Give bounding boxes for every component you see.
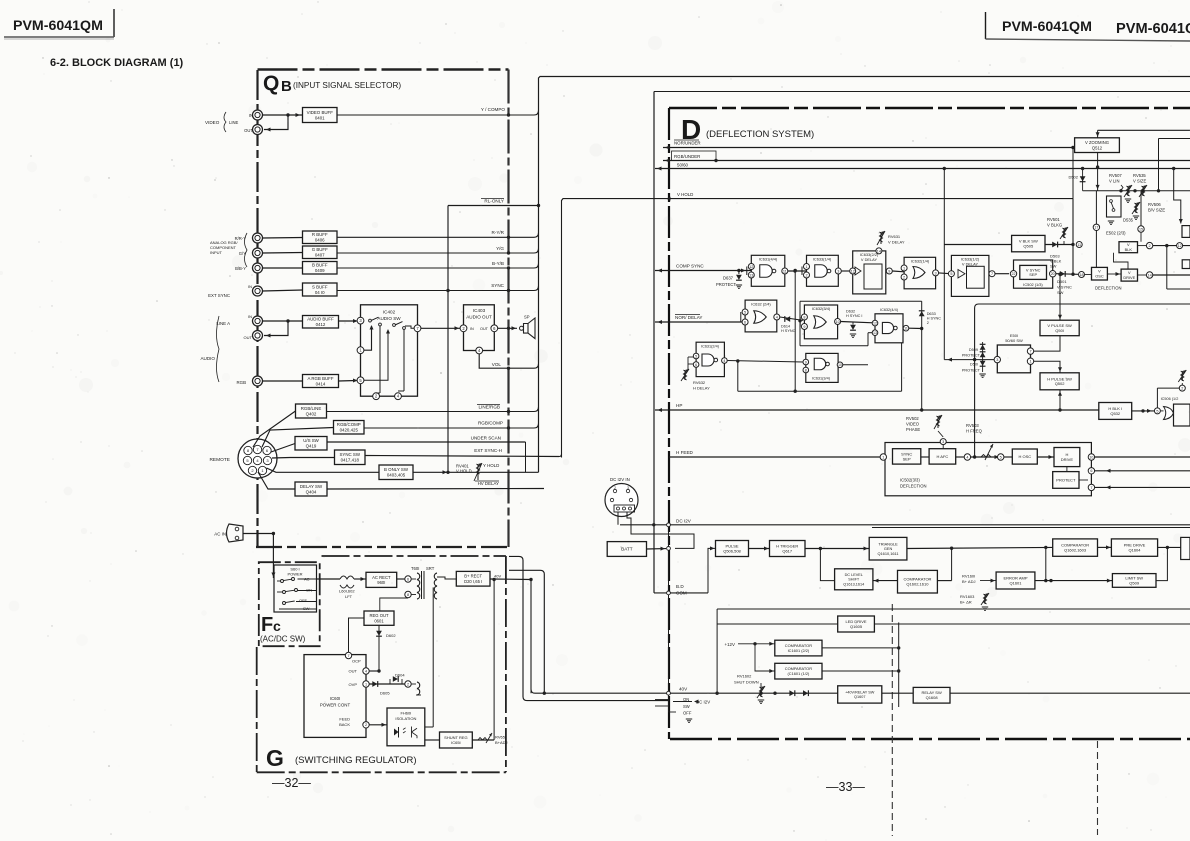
svg-text:SEP: SEP (1029, 272, 1037, 277)
svg-text:B-Y/B: B-Y/B (492, 261, 504, 266)
svg-text:RV631: RV631 (888, 234, 901, 239)
svg-text:OUT: OUT (349, 669, 358, 674)
svg-text:LINE/RGB: LINE/RGB (479, 405, 500, 410)
svg-text:c: c (273, 618, 281, 634)
svg-text:50/60: 50/60 (677, 163, 689, 168)
svg-text:D632: D632 (846, 310, 855, 314)
svg-text:H AFC: H AFC (937, 454, 949, 459)
svg-text:(AC/DC SW): (AC/DC SW) (260, 635, 306, 644)
svg-text:D20 I,65 I: D20 I,65 I (464, 579, 482, 584)
svg-text:17: 17 (1094, 226, 1098, 230)
svg-text:B: B (281, 78, 292, 95)
svg-text:H FEED: H FEED (676, 450, 694, 455)
svg-text:PVM-6041QM: PVM-6041QM (1002, 19, 1092, 35)
svg-text:D535: D535 (1123, 218, 1134, 223)
svg-text:+12V: +12V (725, 642, 735, 647)
svg-text:IC631(2/4): IC631(2/4) (701, 344, 720, 348)
svg-text:0403,405: 0403,405 (387, 473, 406, 478)
svg-text:RV507: RV507 (1109, 173, 1122, 178)
svg-text:SW: SW (303, 606, 310, 611)
svg-text:SRT: SRT (426, 566, 435, 571)
svg-text:RV632: RV632 (693, 380, 706, 385)
svg-text:Y / COMPO: Y / COMPO (481, 107, 506, 112)
svg-text:B/V SIZE: B/V SIZE (1148, 208, 1165, 213)
svg-text:H SYNC: H SYNC (927, 317, 942, 321)
svg-text:DRIVE: DRIVE (1123, 275, 1135, 280)
svg-text:0412: 0412 (316, 322, 326, 327)
svg-text:3: 3 (627, 486, 629, 490)
svg-text:40V: 40V (679, 687, 688, 692)
svg-text:Q1605: Q1605 (850, 624, 863, 629)
svg-text:2: 2 (365, 723, 367, 727)
svg-text:2: 2 (407, 682, 409, 686)
svg-text:3: 3 (996, 358, 998, 362)
svg-text:IN: IN (248, 314, 252, 319)
svg-text:RV535: RV535 (1133, 173, 1146, 178)
svg-text:RV1603: RV1603 (960, 594, 975, 599)
svg-text:Y HOLD: Y HOLD (483, 463, 499, 468)
svg-text:RGB/COMP: RGB/COMP (337, 422, 361, 427)
svg-text:10: 10 (838, 363, 842, 367)
svg-text:Q505: Q505 (1023, 244, 1034, 249)
svg-text:IC632(3/4): IC632(3/4) (812, 306, 831, 311)
svg-text:0401: 0401 (315, 115, 325, 120)
svg-text:A RGB BUFF: A RGB BUFF (307, 376, 333, 381)
svg-text:UNDER SCAN: UNDER SCAN (471, 436, 501, 441)
svg-text:12: 12 (749, 265, 753, 269)
svg-text:D605: D605 (380, 691, 390, 696)
svg-text:RV1602: RV1602 (737, 674, 752, 679)
svg-text:G: G (266, 745, 284, 771)
svg-text:PROTECT: PROTECT (962, 369, 981, 373)
svg-text:Q1602,1610: Q1602,1610 (906, 582, 929, 587)
svg-text:IN: IN (470, 327, 474, 331)
svg-text:7: 7 (1029, 349, 1031, 353)
svg-text:2: 2 (903, 275, 905, 279)
svg-text:SW: SW (1050, 264, 1057, 269)
svg-text:OVP: OVP (349, 682, 358, 687)
svg-text:DEFLECTION: DEFLECTION (900, 484, 927, 489)
svg-text:HV DELAY: HV DELAY (478, 481, 499, 486)
svg-text:960I: 960I (377, 580, 385, 585)
svg-text:OFF: OFF (683, 711, 692, 716)
svg-text:Y/G: Y/G (496, 246, 504, 251)
svg-text:L60I,602: L60I,602 (339, 589, 355, 594)
svg-text:2: 2 (1181, 386, 1183, 390)
svg-text:2: 2 (1149, 244, 1151, 248)
svg-text:H FREQ: H FREQ (966, 429, 983, 434)
svg-text:9: 9 (888, 269, 890, 273)
svg-text:DC LEVEL: DC LEVEL (845, 573, 863, 577)
svg-text:3: 3 (942, 440, 944, 444)
svg-text:F: F (261, 614, 273, 636)
svg-text:IC60I: IC60I (330, 696, 341, 701)
svg-text:0414: 0414 (316, 381, 326, 386)
svg-text:LINE A: LINE A (216, 321, 230, 326)
svg-text:AC IN: AC IN (214, 532, 226, 537)
svg-text:VIDEO BUFF: VIDEO BUFF (307, 110, 334, 115)
svg-text:BLK: BLK (1125, 247, 1133, 252)
svg-text:OSC: OSC (1095, 274, 1104, 279)
svg-text:1: 1 (805, 265, 807, 269)
svg-text:3: 3 (935, 271, 937, 275)
svg-text:U/S SW: U/S SW (303, 438, 319, 443)
svg-text:SW: SW (683, 704, 690, 709)
svg-text:14: 14 (1147, 273, 1151, 277)
svg-text:0407: 0407 (315, 253, 325, 258)
svg-text:4: 4 (966, 455, 968, 459)
svg-text:COMP SYNC: COMP SYNC (676, 264, 704, 269)
svg-text:6-2. BLOCK DIAGRAM (1): 6-2. BLOCK DIAGRAM (1) (50, 57, 184, 69)
svg-text:AUDIO BUFF: AUDIO BUFF (307, 317, 334, 322)
svg-text:Q1607: Q1607 (854, 695, 865, 699)
svg-text:04 I0: 04 I0 (315, 290, 325, 295)
svg-text:INPUT: INPUT (210, 250, 223, 255)
svg-text:V LIN: V LIN (1109, 179, 1119, 184)
svg-text:5: 5 (744, 310, 746, 314)
svg-text:AUDIO: AUDIO (200, 356, 215, 361)
svg-text:6: 6 (407, 577, 409, 581)
svg-text:(DEFLECTION SYSTEM): (DEFLECTION SYSTEM) (706, 129, 814, 140)
svg-text:IC402: IC402 (383, 310, 396, 315)
svg-text:7: 7 (991, 272, 993, 276)
svg-text:NOR/UNDER: NOR/UNDER (674, 141, 701, 146)
svg-text:RGB/COMP: RGB/COMP (478, 421, 503, 426)
svg-text:7: 7 (347, 654, 349, 658)
svg-text:6: 6 (1090, 469, 1092, 473)
svg-text:POWER: POWER (287, 572, 302, 577)
svg-text:—33—: —33— (826, 780, 865, 794)
svg-text:8: 8 (803, 315, 805, 319)
svg-text:Q50I: Q50I (1055, 328, 1064, 333)
svg-text:IN: IN (248, 284, 252, 289)
svg-text:14: 14 (877, 249, 881, 253)
svg-text:Q1610,1611: Q1610,1611 (877, 551, 898, 556)
svg-text:RV501: RV501 (1047, 217, 1060, 222)
svg-text:(SWITCHING REGULATOR): (SWITCHING REGULATOR) (295, 755, 417, 766)
svg-text:2: 2 (805, 273, 807, 277)
svg-text:RGB/UNDER: RGB/UNDER (674, 154, 700, 159)
svg-text:Q1602,1603: Q1602,1603 (1064, 548, 1087, 553)
svg-text:D614: D614 (781, 325, 790, 329)
svg-text:11: 11 (1077, 243, 1081, 247)
svg-text:V DELAY: V DELAY (888, 240, 905, 245)
svg-text:40V: 40V (494, 574, 501, 579)
svg-text:1: 1 (1029, 360, 1031, 364)
svg-text:R-Y/R: R-Y/R (491, 230, 504, 235)
svg-text:PROTECT: PROTECT (962, 353, 981, 357)
svg-text:(C1601 (1/2): (C1601 (1/2) (787, 671, 810, 676)
svg-text:+40V/RELAY SW: +40V/RELAY SW (845, 690, 875, 694)
svg-text:5: 5 (1156, 409, 1158, 413)
svg-text:VIDEO: VIDEO (205, 120, 220, 125)
svg-text:E502 (2/3): E502 (2/3) (1106, 231, 1126, 236)
svg-text:IC502(3/3): IC502(3/3) (900, 478, 920, 483)
svg-text:AUDIO SW: AUDIO SW (377, 316, 401, 321)
svg-text:B BUFF: B BUFF (312, 263, 328, 268)
svg-text:IC1601 (2/2): IC1601 (2/2) (788, 648, 810, 653)
svg-text:1: 1 (903, 266, 905, 270)
svg-text:OUT: OUT (244, 128, 253, 133)
svg-text:OUT: OUT (244, 335, 253, 340)
svg-text:3: 3 (837, 269, 839, 273)
svg-text:50/60 SW: 50/60 SW (1005, 338, 1023, 343)
svg-text:H OSC: H OSC (1018, 454, 1031, 459)
svg-text:REMOTE: REMOTE (209, 457, 230, 463)
svg-text:Q1613,1614: Q1613,1614 (843, 582, 864, 586)
svg-text:ON: ON (306, 588, 312, 593)
svg-text:Q509: Q509 (1129, 580, 1140, 585)
svg-text:DRIVE: DRIVE (1061, 457, 1074, 462)
svg-text:1: 1 (882, 455, 884, 459)
svg-text:(INPUT SIGNAL SELECTOR): (INPUT SIGNAL SELECTOR) (293, 81, 401, 90)
svg-text:HP: HP (676, 403, 682, 408)
svg-text:RV502: RV502 (906, 416, 919, 421)
svg-text:OUT: OUT (480, 327, 489, 331)
svg-text:FEED: FEED (339, 717, 350, 722)
svg-text:Q1601: Q1601 (1009, 580, 1022, 585)
svg-text:B.D: B.D (676, 584, 684, 589)
svg-text:IC631(3/4): IC631(3/4) (812, 377, 831, 381)
svg-text:SYNC: SYNC (491, 283, 504, 288)
svg-text:ISOLATION: ISOLATION (395, 716, 416, 721)
svg-text:IC403: IC403 (473, 308, 486, 313)
svg-text:11: 11 (783, 269, 787, 273)
svg-text:B ONLY SW: B ONLY SW (384, 467, 409, 472)
svg-text:1: 1 (365, 682, 367, 686)
svg-text:Q532: Q532 (1110, 411, 1121, 416)
svg-text:S BUFF: S BUFF (312, 284, 328, 289)
svg-text:0409: 0409 (315, 268, 325, 273)
svg-text:10: 10 (1089, 455, 1093, 459)
svg-text:SP: SP (524, 315, 530, 320)
svg-text:PROTECT: PROTECT (1056, 477, 1076, 482)
svg-text:LFT: LFT (345, 594, 353, 599)
svg-text:DC I2V: DC I2V (676, 519, 692, 524)
svg-text:Q506,508: Q506,508 (723, 548, 741, 553)
svg-text:13: 13 (749, 273, 753, 277)
svg-text:VOL: VOL (492, 362, 502, 367)
svg-text:2: 2 (614, 486, 616, 490)
svg-text:9: 9 (805, 360, 807, 364)
svg-text:4: 4 (365, 669, 367, 673)
svg-text:D5I0: D5I0 (970, 363, 978, 367)
svg-text:12: 12 (851, 269, 855, 273)
svg-text:V DELAY: V DELAY (861, 257, 878, 262)
svg-text:IC502 (1/3): IC502 (1/3) (1023, 282, 1043, 287)
svg-text:0601: 0601 (374, 618, 384, 623)
svg-text:OFF: OFF (299, 598, 308, 603)
svg-text:D602: D602 (386, 633, 396, 638)
svg-text:H SYNC I: H SYNC I (846, 314, 862, 318)
svg-text:V BLKG: V BLKG (1047, 223, 1062, 228)
svg-text:RL-ONLY: RL-ONLY (484, 199, 504, 204)
svg-text:0420,425: 0420,425 (340, 428, 359, 433)
svg-text:Q512: Q512 (1092, 145, 1103, 150)
svg-text:DC I2V IN: DC I2V IN (610, 477, 630, 482)
svg-text:0417,418: 0417,418 (341, 458, 360, 463)
svg-text:OCP: OCP (352, 659, 361, 664)
svg-text:8: 8 (407, 593, 409, 597)
svg-text:D509: D509 (969, 348, 978, 352)
svg-text:D501: D501 (1057, 279, 1067, 284)
svg-text:22: 22 (1012, 272, 1016, 276)
svg-text:13: 13 (873, 331, 877, 335)
svg-text:H SYNC: H SYNC (781, 329, 796, 333)
svg-text:6: 6 (744, 320, 746, 324)
svg-text:R BUFF: R BUFF (312, 232, 328, 237)
svg-text:Q1608: Q1608 (926, 695, 939, 700)
svg-text:Q502: Q502 (1055, 381, 1066, 386)
svg-text:DELAY SW: DELAY SW (300, 484, 323, 489)
svg-text:IC633(1/4): IC633(1/4) (813, 257, 832, 262)
svg-text:5: 5 (950, 272, 952, 276)
svg-text:15: 15 (1139, 227, 1143, 231)
svg-text:18: 18 (1079, 273, 1083, 277)
svg-text:B+ ΔR: B+ ΔR (960, 600, 972, 605)
svg-text:Q419: Q419 (306, 444, 317, 449)
svg-text:RGB/LINE: RGB/LINE (301, 406, 322, 411)
svg-text:IC506 (1/2: IC506 (1/2 (1161, 397, 1179, 401)
svg-text:4: 4 (776, 315, 778, 319)
svg-text:AUDIO OUT: AUDIO OUT (466, 315, 492, 320)
svg-text:12: 12 (873, 321, 877, 325)
svg-text:—32—: —32— (272, 776, 311, 790)
svg-text:BATT: BATT (621, 547, 633, 552)
svg-text:4: 4 (723, 359, 725, 363)
svg-text:V SYNC: V SYNC (1057, 285, 1072, 290)
svg-text:Q: Q (263, 72, 279, 95)
svg-text:VIDEO: VIDEO (906, 422, 920, 427)
svg-text:LINE: LINE (229, 120, 239, 125)
svg-text:EXT SYNC: EXT SYNC (208, 293, 230, 298)
svg-text:11: 11 (904, 326, 908, 330)
svg-text:9: 9 (803, 325, 805, 329)
svg-text:V SIZE: V SIZE (1133, 179, 1146, 184)
svg-text:PHASE: PHASE (906, 427, 920, 432)
svg-text:DEFLECTION: DEFLECTION (1095, 286, 1122, 291)
svg-text:6: 6 (695, 363, 697, 367)
svg-text:D604: D604 (395, 673, 405, 678)
svg-text:0406: 0406 (315, 238, 325, 243)
svg-text:2: 2 (927, 321, 929, 325)
svg-text:RV503: RV503 (966, 423, 979, 428)
svg-text:RV506: RV506 (1148, 202, 1161, 207)
svg-text:7: 7 (1090, 486, 1092, 490)
svg-text:5: 5 (695, 354, 697, 358)
svg-text:IC632(4/4): IC632(4/4) (880, 308, 899, 312)
svg-text:PVM-6041QM: PVM-6041QM (13, 18, 103, 34)
svg-text:5: 5 (1000, 455, 1002, 459)
svg-text:RV65I: RV65I (495, 735, 506, 740)
svg-text:PROTECT: PROTECT (716, 282, 736, 287)
svg-text:IC65I: IC65I (451, 740, 461, 745)
svg-text:B+ ADJ: B+ ADJ (962, 579, 975, 584)
svg-text:8: 8 (805, 368, 807, 372)
svg-text:10: 10 (835, 320, 839, 324)
svg-text:RGB: RGB (236, 380, 246, 385)
svg-text:SYNC SW: SYNC SW (340, 452, 361, 457)
svg-text:D633: D633 (927, 312, 936, 316)
svg-text:Q617: Q617 (782, 548, 793, 553)
svg-text:V HOLD: V HOLD (677, 192, 693, 197)
svg-text:Q402: Q402 (306, 411, 317, 416)
svg-text:NOR/ DELAY: NOR/ DELAY (675, 315, 702, 320)
svg-text:Q404: Q404 (306, 489, 317, 494)
svg-text:T60I: T60I (411, 566, 419, 571)
svg-text:H DELAY: H DELAY (693, 386, 710, 391)
svg-text:RV160I: RV160I (962, 574, 975, 579)
svg-text:SHUT DOWN: SHUT DOWN (734, 680, 759, 685)
svg-text:IC631(4/4): IC631(4/4) (759, 257, 778, 262)
svg-text:G BUFF: G BUFF (312, 247, 328, 252)
svg-text:PVM-6041Q: PVM-6041Q (1116, 21, 1190, 37)
svg-text:FH60I: FH60I (400, 711, 411, 716)
svg-text:V HOLD: V HOLD (456, 469, 472, 474)
svg-text:12: 12 (1178, 244, 1182, 248)
svg-text:D637: D637 (723, 276, 734, 281)
svg-text:POWER CONT: POWER CONT (320, 703, 351, 708)
svg-text:EXT SYNC-H: EXT SYNC-H (474, 448, 502, 453)
svg-text:BACK: BACK (339, 722, 350, 727)
svg-text:Q1604: Q1604 (1128, 548, 1141, 553)
svg-text:20: 20 (1051, 272, 1055, 276)
svg-text:IC632(1/4): IC632(1/4) (911, 259, 930, 264)
svg-text:SHIFT: SHIFT (848, 578, 860, 582)
